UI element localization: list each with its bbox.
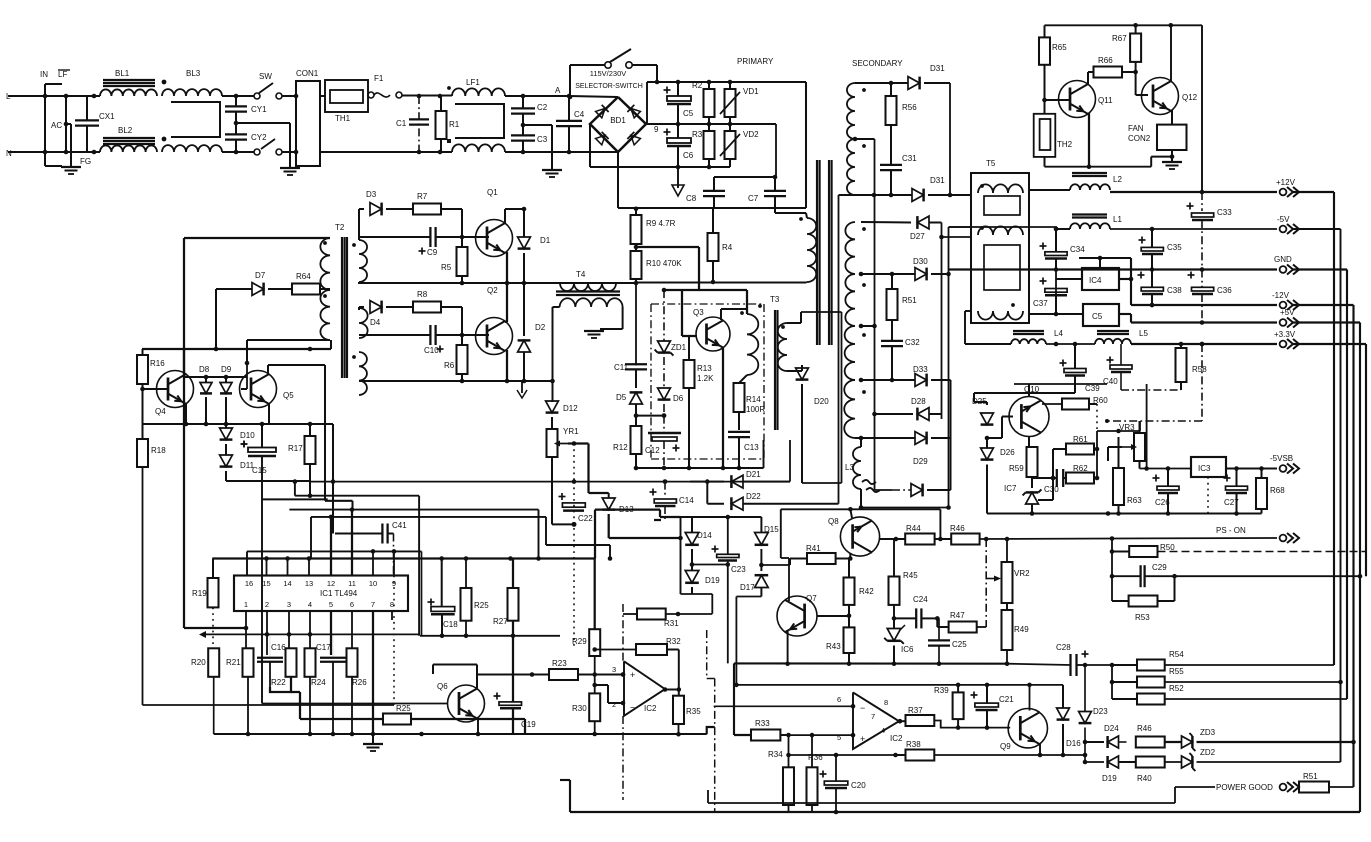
- svg-text:Q2: Q2: [487, 286, 498, 295]
- ground fan: [1171, 157, 1173, 161]
- svg-text:R63: R63: [1127, 496, 1142, 505]
- resistor R25v: [461, 588, 472, 621]
- wire IC7 anode: [1031, 504, 1033, 514]
- wire sec group top: [861, 221, 911, 224]
- wire D33 right: [931, 379, 951, 381]
- svg-text:R39: R39: [934, 686, 949, 695]
- svg-text:3: 3: [612, 665, 616, 674]
- wire sb rail right: [1237, 513, 1262, 515]
- svg-text:C39: C39: [1085, 384, 1100, 393]
- wire bus y551: [247, 550, 422, 552]
- svg-text:PS - ON: PS - ON: [1216, 526, 1246, 535]
- resistor R38: [906, 750, 935, 761]
- wire R24 bottom: [309, 677, 311, 734]
- wire Q7 collector: [788, 558, 790, 601]
- diode D14: [691, 517, 693, 533]
- svg-text:R8: R8: [417, 290, 428, 299]
- wire D8 D9 top: [184, 376, 247, 378]
- wire fan bottom: [1171, 150, 1173, 157]
- wire Q12 base: [1135, 72, 1137, 95]
- wire YR1 wiper: [568, 442, 589, 444]
- transistor Q10: [1009, 397, 1049, 437]
- svg-text:D26: D26: [1000, 448, 1015, 457]
- transistor Q12: [1142, 78, 1179, 115]
- transistor Q3: [696, 317, 730, 351]
- svg-text:SELECTOR-SWITCH: SELECTOR-SWITCH: [575, 83, 643, 90]
- svg-text:R2: R2: [692, 81, 703, 90]
- bridge BD1: [590, 97, 646, 152]
- resistor R37: [906, 715, 935, 726]
- capacitor C13: [728, 431, 750, 433]
- svg-text:C34: C34: [1070, 245, 1085, 254]
- svg-text:D31: D31: [930, 176, 945, 185]
- svg-text:IC7: IC7: [1004, 484, 1017, 493]
- wire R65 down: [1044, 65, 1046, 114]
- wire R10 bottom: [635, 283, 637, 366]
- wire Q5 base: [246, 340, 248, 389]
- svg-text:R16: R16: [150, 359, 165, 368]
- transformer T1 core: [816, 160, 818, 345]
- svg-text:C30: C30: [1044, 485, 1059, 494]
- wire R34 R36 bottom: [788, 805, 790, 812]
- svg-text:D28: D28: [911, 397, 926, 406]
- inductor L5: [1097, 330, 1129, 332]
- svg-text:16: 16: [245, 579, 253, 588]
- capacitor C40: [1107, 359, 1114, 361]
- wire bundle y509: [289, 509, 538, 511]
- resistor R62: [1066, 473, 1094, 484]
- svg-text:6: 6: [350, 600, 354, 609]
- svg-text:4: 4: [881, 726, 885, 735]
- svg-text:R33: R33: [755, 719, 770, 728]
- wire bundle x325: [324, 365, 326, 501]
- wire L1 left: [1057, 228, 1070, 230]
- resistor R35: [673, 696, 684, 724]
- wire CON1 N: [320, 151, 368, 153]
- wire Q9 collector: [1029, 685, 1031, 711]
- svg-text:LF1: LF1: [466, 78, 480, 87]
- capacitor C37: [1040, 280, 1047, 282]
- svg-text:D19: D19: [1102, 774, 1117, 783]
- svg-text:R66: R66: [1098, 56, 1113, 65]
- svg-text:100R: 100R: [746, 405, 765, 414]
- wire Q9 emitter: [1039, 743, 1041, 755]
- wire R55 right: [1165, 681, 1341, 683]
- IC5 box: [1083, 304, 1119, 326]
- wire block bottom: [681, 593, 713, 595]
- wire C23 col down: [727, 565, 729, 664]
- wire C16 hook: [270, 677, 291, 692]
- wire R52 drop: [1111, 682, 1113, 699]
- svg-text:IC2: IC2: [644, 704, 657, 713]
- IC4 box: [1082, 268, 1119, 290]
- svg-text:T4: T4: [576, 270, 586, 279]
- wire pin row y634: [199, 631, 206, 638]
- diode D21: [690, 481, 724, 483]
- wire IC3 out: [1226, 467, 1277, 469]
- connector GND: [1280, 266, 1287, 273]
- wire q9 rail end: [1063, 754, 1085, 756]
- transformer T1 secondary upper: [847, 83, 855, 139]
- resistor R7: [413, 204, 441, 215]
- svg-text:R3: R3: [692, 130, 703, 139]
- wire q8 top rail: [781, 508, 941, 510]
- resistor R27: [508, 588, 519, 621]
- wire pin5 down: [330, 611, 332, 655]
- wire pin8 down: [391, 611, 393, 620]
- wire tap vertical 1: [838, 195, 840, 504]
- diode D3: [359, 208, 364, 210]
- node D5 D6: [634, 413, 639, 418]
- wire fan bottom rail: [1045, 166, 1152, 168]
- wire gnd rail step: [707, 727, 715, 734]
- inductor BL2: [103, 137, 155, 139]
- wire bridge top: [569, 96, 618, 97]
- resistor R65: [1039, 37, 1050, 64]
- resistor R1: [436, 111, 447, 139]
- diode D28: [917, 408, 929, 421]
- resistor R16: [137, 355, 148, 384]
- transistor Q11: [1059, 81, 1096, 118]
- node C22 bottom: [572, 522, 577, 527]
- diode D4: [359, 306, 364, 308]
- svg-text:CON2: CON2: [1128, 134, 1151, 143]
- svg-text:R50: R50: [1160, 543, 1175, 552]
- svg-text:IC3: IC3: [1198, 464, 1211, 473]
- wire fan supply: [1201, 25, 1203, 192]
- wire Q11 base: [1045, 99, 1071, 101]
- diode D22: [706, 482, 708, 504]
- svg-text:R20: R20: [191, 658, 206, 667]
- wire bus y558: [212, 557, 595, 559]
- resistor R63: [1113, 468, 1124, 505]
- svg-text:IC1 TL494: IC1 TL494: [320, 589, 358, 598]
- svg-text:GND: GND: [1274, 255, 1292, 264]
- node CY mid: [234, 121, 239, 126]
- capacitor C23: [712, 548, 719, 550]
- svg-text:C6: C6: [683, 151, 694, 160]
- svg-text:D6: D6: [673, 394, 684, 403]
- wire bridge bottom rail: [617, 152, 619, 208]
- wire rect out1: [939, 235, 944, 240]
- svg-text:R35: R35: [686, 707, 701, 716]
- svg-text:L1: L1: [1113, 215, 1122, 224]
- wire sec bottom rail: [855, 194, 912, 196]
- svg-text:D3: D3: [366, 190, 377, 199]
- resistor R46: [951, 534, 979, 545]
- svg-text:IC2: IC2: [890, 734, 903, 743]
- transistor Q1: [476, 220, 513, 257]
- svg-text:C8: C8: [686, 194, 697, 203]
- svg-text:13: 13: [305, 579, 313, 588]
- capacitor C33: [1201, 192, 1203, 211]
- wire R32 right: [667, 649, 679, 651]
- wire driver emitter rail: [143, 423, 334, 425]
- resistor R49: [1002, 610, 1013, 650]
- svg-text:ZD1: ZD1: [671, 343, 687, 352]
- wire sec mid tap: [853, 137, 858, 142]
- capacitor C8: [703, 190, 725, 192]
- wire IC3 gnd: [1207, 477, 1209, 514]
- svg-text:R64: R64: [296, 272, 311, 281]
- wire to CY2: [222, 151, 254, 153]
- svg-text:R30: R30: [572, 704, 587, 713]
- wire -12V rail: [1130, 258, 1132, 305]
- wire pin7 down: [372, 611, 374, 734]
- resistor R20: [208, 648, 219, 677]
- wire IC7 ref: [1038, 499, 1053, 501]
- wire C41 dash: [393, 534, 395, 576]
- transistor Q5: [240, 371, 277, 408]
- resistor R54: [1137, 660, 1165, 671]
- transistor Q9: [1008, 709, 1047, 748]
- diode D7: [216, 288, 252, 290]
- wire Q7 emitter: [787, 631, 789, 664]
- switch SW lower: [254, 149, 260, 155]
- transformer T2 right winding: [359, 240, 367, 282]
- svg-text:R23: R23: [552, 659, 567, 668]
- diode D30: [915, 268, 927, 281]
- wire T4 sec right: [622, 307, 624, 329]
- diode D20: [801, 365, 803, 371]
- svg-text:C41: C41: [392, 521, 407, 530]
- svg-text:2: 2: [265, 600, 269, 609]
- wire T3 right top: [787, 322, 801, 324]
- svg-text:D5: D5: [616, 393, 627, 402]
- resistor R31: [637, 609, 666, 620]
- resistor R2: [704, 89, 715, 117]
- wire to CY1: [222, 95, 254, 97]
- wire Q8 out: [880, 538, 896, 540]
- wire pin16 up: [246, 551, 248, 575]
- svg-text:R49: R49: [1014, 625, 1029, 634]
- node D25 D26: [985, 436, 990, 441]
- resistor R46b: [1136, 737, 1165, 748]
- svg-text:R27: R27: [493, 617, 508, 626]
- wire ground rail IC1: [214, 733, 707, 735]
- wire SW to CON1 lower: [282, 151, 296, 153]
- wire C39 link: [974, 392, 1075, 394]
- svg-text:PRIMARY: PRIMARY: [737, 57, 774, 66]
- svg-text:T3: T3: [770, 295, 780, 304]
- resistor R14: [739, 375, 747, 383]
- svg-text:R56: R56: [902, 103, 917, 112]
- transistor Q2: [476, 318, 513, 355]
- connector CON1: [296, 81, 320, 166]
- wire y755 rail: [789, 754, 896, 756]
- wire bridge left down: [589, 124, 591, 167]
- wire R19 dotted: [212, 607, 214, 648]
- svg-text:BL1: BL1: [115, 69, 130, 78]
- svg-text:SECONDARY: SECONDARY: [852, 59, 903, 68]
- svg-text:D16: D16: [1066, 739, 1081, 748]
- svg-text:C21: C21: [999, 695, 1014, 704]
- resistor R9: [631, 215, 642, 244]
- svg-text:ZD2: ZD2: [1200, 748, 1216, 757]
- wire R51 right: [1329, 786, 1354, 788]
- capacitor C19: [494, 695, 501, 697]
- inductor L2: [1072, 172, 1107, 174]
- diode D33: [915, 374, 927, 387]
- svg-text:C10: C10: [424, 346, 439, 355]
- wire Q8 base: [849, 553, 851, 559]
- capacitor C16: [257, 657, 283, 659]
- svg-text:N: N: [6, 149, 12, 158]
- switch SW upper: [254, 93, 260, 99]
- svg-text:R13: R13: [697, 364, 712, 373]
- capacitor C30: [1056, 469, 1058, 487]
- wire pin9 up: [393, 551, 395, 575]
- wire IC4 left: [1056, 278, 1082, 280]
- svg-text:TH2: TH2: [1057, 140, 1073, 149]
- wire bridge bottom: [569, 151, 618, 153]
- svg-text:R51: R51: [902, 296, 917, 305]
- svg-text:R40: R40: [1137, 774, 1152, 783]
- capacitor C41: [381, 524, 383, 544]
- svg-text:BL2: BL2: [118, 126, 133, 135]
- diode D11: [220, 455, 233, 467]
- resistor R45: [889, 577, 900, 605]
- svg-text:R43: R43: [826, 642, 841, 651]
- ground CY: [280, 167, 300, 169]
- wire D13 bottom: [609, 537, 681, 539]
- zener ZD2: [1165, 761, 1182, 763]
- node 9 rail: [647, 123, 776, 125]
- svg-text:Q3: Q3: [693, 308, 704, 317]
- zener IC6: [887, 629, 901, 641]
- svg-text:R12: R12: [613, 443, 628, 452]
- svg-text:R24: R24: [311, 678, 326, 687]
- resistor R60: [1042, 403, 1062, 405]
- boundary dash box Q3: [651, 303, 764, 305]
- wire D31 down: [949, 83, 951, 195]
- wire R9R10 junction: [636, 246, 699, 248]
- wire pin6 down: [351, 611, 353, 648]
- svg-text:R47: R47: [950, 611, 965, 620]
- svg-text:6: 6: [837, 695, 841, 704]
- resistor R23h: [549, 669, 578, 680]
- capacitor C3: [511, 134, 535, 136]
- svg-text:-5V: -5V: [1277, 215, 1290, 224]
- svg-text:R37: R37: [908, 706, 923, 715]
- diode D9: [225, 377, 227, 383]
- LF1 frame: [455, 104, 504, 138]
- connector -5VSB: [1280, 465, 1287, 472]
- wire D7 stub: [215, 289, 217, 349]
- resistor R68: [1256, 478, 1267, 509]
- svg-text:C33: C33: [1217, 208, 1232, 217]
- wire block left: [680, 517, 682, 594]
- wire R25h right: [411, 718, 525, 720]
- svg-text:D19: D19: [705, 576, 720, 585]
- wire R63 link: [1118, 437, 1120, 468]
- svg-text:3: 3: [287, 600, 291, 609]
- wire R21 bottom: [247, 677, 249, 734]
- wire R50 col: [1111, 539, 1113, 602]
- resistor R3: [704, 131, 715, 159]
- svg-text:+3.3V: +3.3V: [1274, 330, 1296, 339]
- diode D13: [608, 493, 610, 498]
- svg-text:D10: D10: [240, 431, 255, 440]
- svg-text:10: 10: [369, 579, 377, 588]
- svg-text:SW: SW: [259, 72, 272, 81]
- ground T4: [584, 330, 604, 332]
- resistor R32: [636, 644, 667, 655]
- capacitor C10: [429, 325, 431, 345]
- node D14 D19: [690, 562, 695, 567]
- svg-text:BD1: BD1: [610, 116, 626, 125]
- wire R20 bottom: [213, 677, 215, 734]
- svg-text:L4: L4: [1054, 329, 1063, 338]
- svg-text:C29: C29: [1152, 563, 1167, 572]
- wire err gnd rail: [734, 662, 1007, 664]
- wire T1 primary bottom rail: [636, 282, 806, 284]
- wire T2w2 top: [358, 307, 360, 310]
- svg-text:R6: R6: [444, 361, 455, 370]
- wire Q12 collector: [1170, 25, 1172, 82]
- capacitor C26: [1153, 477, 1160, 479]
- capacitor C20: [820, 773, 827, 775]
- capacitor C2: [511, 107, 535, 109]
- wire Q11 emitter: [1088, 113, 1090, 167]
- svg-text:R44: R44: [906, 524, 921, 533]
- wire Q5 emitter: [268, 403, 270, 424]
- wire Q6 emitter: [477, 717, 479, 734]
- wire IC2a out: [663, 687, 668, 692]
- wire Q4 base: [142, 384, 144, 389]
- diode D1: [523, 209, 525, 237]
- svg-text:C25: C25: [952, 640, 967, 649]
- svg-text:IC6: IC6: [901, 645, 914, 654]
- wire R29 col: [594, 559, 596, 630]
- svg-text:R46: R46: [950, 524, 965, 533]
- svg-text:D11: D11: [240, 461, 255, 470]
- capacitor C6: [664, 131, 671, 133]
- svg-text:R68: R68: [1270, 486, 1285, 495]
- svg-text:R10 470K: R10 470K: [646, 259, 682, 268]
- diode D24: [1085, 741, 1104, 743]
- wire IC2a -in: [621, 701, 626, 706]
- wire Q1 bottom rail: [358, 282, 636, 284]
- diode D29b: [875, 489, 893, 491]
- wire err rail drop: [733, 663, 735, 735]
- inductor BL4: [162, 145, 222, 152]
- resistor R66: [1094, 67, 1123, 78]
- svg-text:FG: FG: [80, 157, 91, 166]
- wire C8 top: [714, 176, 775, 178]
- svg-text:C14: C14: [679, 496, 694, 505]
- resistor R26: [347, 648, 358, 677]
- inductor LF1 bottom: [452, 144, 505, 152]
- diode D31: [908, 77, 920, 90]
- wire L4-L5: [1046, 343, 1095, 345]
- svg-text:7: 7: [871, 712, 875, 721]
- resistor R39: [953, 692, 964, 719]
- wire LF1-C2: [505, 95, 569, 97]
- svg-text:-12V: -12V: [1272, 291, 1290, 300]
- svg-text:VR2: VR2: [1014, 569, 1030, 578]
- resistor R25h: [383, 714, 411, 725]
- capacitor C9: [429, 227, 431, 247]
- svg-text:1.2K: 1.2K: [697, 374, 714, 383]
- svg-text:−: −: [630, 703, 635, 713]
- varistor VD2: [725, 131, 736, 159]
- svg-text:R55: R55: [1169, 667, 1184, 676]
- resistor R59: [1027, 447, 1038, 477]
- connector +5V: [1280, 319, 1287, 326]
- svg-text:D31: D31: [930, 64, 945, 73]
- wire T3 right bottom: [787, 370, 802, 372]
